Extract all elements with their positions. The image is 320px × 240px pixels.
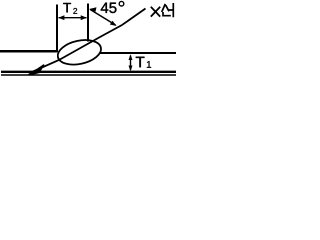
node: vertical plate left edge xyxy=(56,5,58,53)
node: film lower line xyxy=(1,74,176,76)
label X of X-ray xyxy=(151,7,160,17)
T2 left arrowhead xyxy=(58,15,64,20)
node: lower plate top surface (left segment) xyxy=(0,50,58,53)
node: lower plate top surface (right segment) xyxy=(100,52,177,54)
wire: T1 dimension arrow line xyxy=(130,56,132,71)
degree symbol xyxy=(119,1,124,6)
wire: 45-degree angle leader with arrows xyxy=(90,9,116,25)
label T1: letter T xyxy=(136,57,145,67)
label seon: eo vowel part xyxy=(169,3,174,17)
label T2: letter T xyxy=(63,3,71,12)
angle leader arrowhead at vertical plate xyxy=(89,7,96,12)
label 45 deg xyxy=(101,3,117,13)
weld zone ellipse xyxy=(55,36,103,68)
T2 right arrowhead xyxy=(81,15,87,20)
wire: T2 dimension line xyxy=(59,17,87,19)
T1 top arrowhead xyxy=(129,54,133,60)
angle leader arrowhead at beam xyxy=(110,21,117,26)
label T1: subscript 1 xyxy=(147,61,151,68)
label seon (Korean) of X-ray: siot part xyxy=(162,4,169,12)
node: film upper line xyxy=(1,71,176,73)
wire: X-ray beam line xyxy=(29,9,146,75)
node: vertical plate right edge xyxy=(87,4,89,42)
label seon: nieun part xyxy=(163,12,171,16)
T1 bottom arrowhead xyxy=(129,66,133,72)
beam arrowhead on film xyxy=(29,65,44,75)
label T2: subscript 2 xyxy=(73,8,77,14)
